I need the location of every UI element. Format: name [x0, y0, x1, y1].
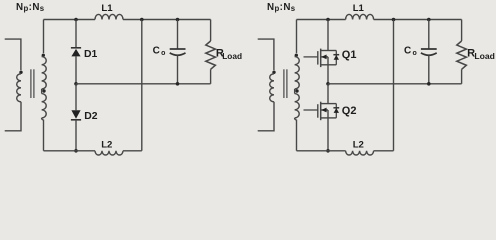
svg-text:Np:Ns: Np:Ns — [16, 2, 45, 13]
svg-text:C: C — [153, 45, 160, 56]
diode D1 — [71, 47, 81, 49]
resistor RLoad (right) — [457, 41, 467, 69]
svg-text:D2: D2 — [84, 111, 98, 122]
Q2 body diode — [335, 104, 337, 118]
transistor Q2 source stub — [321, 117, 337, 119]
wire D1 anode lead — [75, 56, 77, 83]
wire T2 primary bottom lead — [258, 102, 274, 131]
wire D2 cathode lead — [75, 120, 77, 151]
wire T1 primary bottom lead — [5, 102, 21, 131]
wire Q2 gate lead — [304, 109, 318, 111]
node: Co top junction (right) — [427, 18, 431, 22]
svg-text:Q2: Q2 — [342, 105, 357, 117]
node: L2-return top junction (left) — [140, 18, 144, 22]
wire Co top lead (left) — [177, 20, 179, 49]
wire T1 secondary spine link — [41, 89, 43, 94]
node: Co top junction (left) — [176, 18, 180, 22]
node: D1/D2 midpoint junction — [74, 82, 78, 86]
wire D1 cathode lead — [75, 20, 77, 48]
resistor RLoad (left) — [206, 41, 216, 69]
svg-text:L1: L1 — [101, 3, 113, 14]
transistor Q2 channel bar — [320, 102, 322, 121]
T1 secondary phase dot (top) — [42, 54, 45, 57]
wire T2 primary top lead — [258, 39, 274, 70]
wire bottom rail (right circuit) — [297, 150, 394, 152]
transistor Q1 channel bar — [320, 49, 322, 68]
node: Co bottom junction (right) — [427, 82, 431, 86]
svg-text:o: o — [161, 50, 165, 57]
transistor Q1 source stub — [321, 64, 337, 66]
svg-text:L2: L2 — [101, 140, 112, 151]
svg-text:Np:Ns: Np:Ns — [267, 2, 296, 13]
wire Q1 source lead — [327, 57, 329, 84]
wire output return rail (left circuit) — [76, 83, 211, 85]
wire T2 secondary bottom lead — [295, 118, 297, 151]
node: D1 top junction — [74, 18, 78, 22]
wire RLoad top lead (left) — [210, 20, 212, 42]
node: D2 bottom junction — [74, 149, 78, 153]
transformer T1 secondary winding (upper) — [42, 57, 47, 89]
wire D2 anode lead — [75, 84, 77, 110]
wire Q2 source lead — [327, 110, 329, 151]
wire T2 secondary top lead — [296, 20, 298, 54]
transformer T2 primary winding — [270, 74, 274, 102]
wire Co bottom lead (left) — [177, 56, 179, 84]
inductor L2 (left) — [95, 151, 123, 155]
T2 secondary phase dot (mid) — [295, 89, 298, 92]
diode D2 — [71, 110, 80, 119]
wire Q1 gate lead — [304, 56, 318, 58]
node: L2-return top junction (right) — [392, 18, 396, 22]
transformer T1 primary winding — [17, 74, 21, 102]
transistor Q1 body arrow — [321, 56, 328, 58]
wire T2 secondary spine link — [294, 89, 296, 94]
node: Q1/Q2 midpoint junction — [326, 82, 330, 86]
svg-text:L2: L2 — [353, 140, 364, 151]
svg-text:C: C — [404, 45, 411, 56]
transformer T1 core — [30, 69, 32, 98]
transistor Q2 drain stub — [321, 103, 337, 105]
transistor Q1 drain stub — [321, 50, 337, 52]
transistor Q2 body arrow — [321, 109, 328, 111]
wire T1 primary top lead — [5, 39, 21, 70]
wire Co bottom lead (right) — [428, 56, 430, 84]
capacitor Co (left) — [170, 48, 186, 50]
capacitor Co (right) — [421, 48, 437, 50]
inductor L1 (left) — [95, 14, 123, 19]
svg-text:L1: L1 — [353, 3, 365, 14]
wire top rail (left circuit) — [44, 19, 211, 21]
transformer T2 secondary winding (upper) — [295, 57, 300, 89]
wire T1 secondary bottom lead — [42, 118, 44, 151]
svg-text:D1: D1 — [84, 49, 98, 60]
wire T1 secondary top lead — [43, 20, 45, 54]
T2 secondary phase dot (top) — [295, 54, 298, 57]
transformer T1 secondary winding (lower) — [42, 94, 47, 118]
transistor Q2 gate bar — [317, 104, 319, 118]
wire top rail (right circuit) — [297, 19, 462, 21]
wire L2 return riser (right) — [393, 20, 395, 151]
node: Co bottom junction (left) — [176, 82, 180, 86]
svg-text:o: o — [413, 50, 417, 57]
wire output return rail (right circuit) — [328, 83, 462, 85]
wire Q1 drain lead — [327, 20, 329, 51]
wire RLoad top lead (right) — [461, 20, 463, 42]
svg-text:Load: Load — [222, 51, 242, 61]
wire RLoad bottom lead (left) — [210, 69, 212, 84]
transistor Q1 gate bar — [317, 51, 319, 65]
wire RLoad bottom lead (right) — [461, 69, 463, 84]
svg-text:Q1: Q1 — [342, 49, 357, 61]
inductor L1 (right) — [346, 14, 374, 19]
node: Q2 source junction — [326, 149, 330, 153]
wire Co top lead (right) — [428, 20, 430, 49]
wire bottom rail (left circuit) — [44, 150, 142, 152]
T1 primary phase dot — [19, 71, 22, 74]
T1 secondary phase dot (mid) — [42, 89, 45, 92]
T2 primary phase dot — [272, 71, 275, 74]
wire L2 return riser (left) — [141, 20, 143, 151]
wire Q2 drain lead — [327, 84, 329, 104]
transformer T2 secondary winding (lower) — [295, 94, 300, 118]
node: Q1 drain junction — [326, 18, 330, 22]
svg-text:Load: Load — [474, 51, 495, 61]
transformer T2 core — [283, 69, 285, 98]
inductor L2 (right) — [346, 151, 374, 155]
Q1 body diode — [335, 51, 337, 65]
